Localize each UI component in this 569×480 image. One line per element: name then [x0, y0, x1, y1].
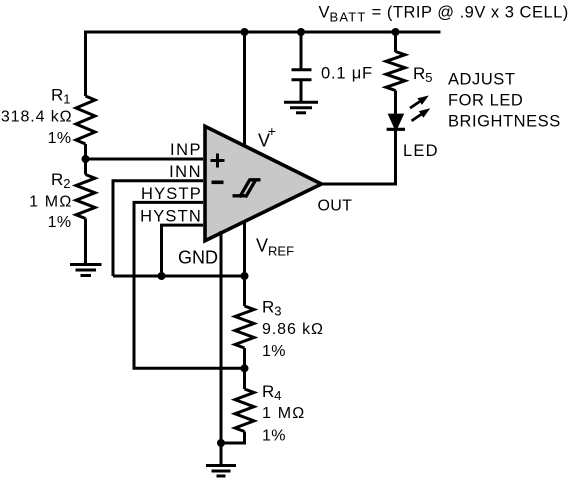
svg-text:R5: R5: [413, 64, 433, 85]
ground symbol below capacitor: [284, 102, 318, 113]
svg-text:1%: 1%: [262, 343, 286, 360]
svg-text:9.86 kΩ: 9.86 kΩ: [262, 321, 324, 338]
wire: R2 bottom to ground: [84, 219, 87, 265]
svg-text:R2: R2: [51, 170, 71, 191]
LED light arrow lower: [412, 108, 431, 121]
wire: left vertical from rail to R1: [84, 31, 87, 97]
svg-text:+: +: [268, 123, 276, 139]
svg-text:R4: R4: [262, 382, 282, 403]
op-amp minus input symbol: [212, 181, 224, 185]
node: INP junction: [82, 155, 90, 163]
wire: R4 bottom to ground line: [221, 432, 245, 444]
svg-text:GND: GND: [178, 248, 218, 268]
wire: bottom bus INN/HYSTN to VREF line: [113, 275, 245, 278]
svg-text:INN: INN: [169, 163, 202, 181]
wire: R3 bottom to R4 top: [243, 348, 246, 389]
wire: INP from node to op-amp: [86, 158, 204, 161]
resistor R3: [235, 306, 254, 348]
svg-text:1%: 1%: [48, 130, 72, 147]
svg-text:0.1 μF: 0.1 μF: [321, 65, 373, 83]
node: HYSTN to bus: [158, 272, 166, 280]
svg-text:FOR LED: FOR LED: [448, 92, 523, 110]
op-amp plus input symbol: [211, 154, 225, 168]
node: ground junction: [217, 439, 225, 447]
wire: top VBATT rail: [84, 31, 441, 34]
svg-text:BRIGHTNESS: BRIGHTNESS: [448, 112, 561, 130]
resistor R5: [386, 52, 405, 91]
diode LED symbol: [387, 114, 405, 130]
op-amp hysteresis symbol: [233, 179, 261, 197]
svg-text:HYSTN: HYSTN: [140, 208, 202, 226]
svg-text:1%: 1%: [48, 214, 72, 231]
svg-text:LED: LED: [403, 142, 439, 160]
svg-text:1 MΩ: 1 MΩ: [29, 194, 72, 211]
svg-text:1 MΩ: 1 MΩ: [262, 405, 305, 422]
capacitor C1 0.1uF: [292, 70, 312, 102]
resistor R1: [76, 96, 95, 144]
svg-text:OUT: OUT: [318, 197, 353, 214]
svg-text:1%: 1%: [262, 427, 286, 444]
wire: HYSTN down to bottom bus: [162, 225, 204, 276]
svg-text:R1: R1: [51, 85, 71, 106]
LED light arrow upper: [410, 96, 429, 109]
node: R3/R4 junction with HYSTP: [241, 364, 249, 372]
svg-text:VBATT = (TRIP @ .9V x 3 CELL): VBATT = (TRIP @ .9V x 3 CELL): [319, 3, 569, 24]
op-amp U1 comparator triangle: [205, 126, 322, 240]
svg-text:HYSTP: HYSTP: [141, 185, 202, 203]
wire: V+ from rail to op-amp top: [243, 32, 246, 146]
wire: HYSTP down and across to R3/R4 junction: [134, 202, 245, 368]
wire: R5 branch from rail: [394, 32, 397, 52]
node: capacitor on rail: [297, 28, 305, 36]
svg-text:318.4 kΩ: 318.4 kΩ: [1, 109, 73, 126]
node: bus to VREF line: [241, 272, 249, 280]
wire: capacitor branch from rail: [300, 32, 303, 69]
label ADJUST FOR LED BRIGHTNESS: [448, 71, 561, 131]
node: V+ on rail: [241, 28, 249, 36]
svg-text:VREF: VREF: [256, 236, 294, 259]
wire: R5 to LED: [394, 91, 397, 115]
wire: INN L-shape: [113, 181, 203, 276]
svg-text:INP: INP: [170, 141, 202, 159]
wire: VREF pin down to R3: [243, 221, 246, 307]
node: R5 on rail: [392, 28, 400, 36]
resistor R2: [76, 175, 95, 219]
ground symbol below R2: [70, 265, 102, 276]
wire: LED to output corner: [320, 129, 396, 184]
wire: R1 bottom to R2 top: [84, 144, 87, 175]
svg-text:R3: R3: [262, 297, 282, 318]
ground symbol bottom: [206, 466, 236, 477]
resistor R4: [235, 389, 254, 432]
wire: GND pin down to bottom ground: [220, 231, 223, 465]
svg-text:ADJUST: ADJUST: [448, 71, 515, 89]
